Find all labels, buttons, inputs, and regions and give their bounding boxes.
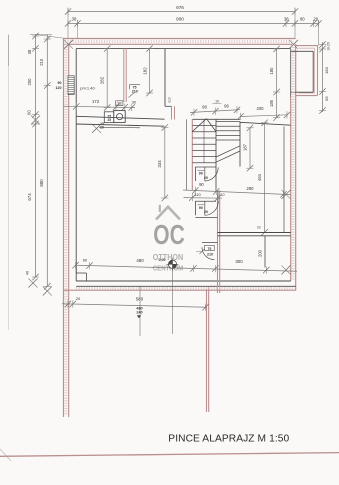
- svg-text:OTTHON: OTTHON: [153, 252, 184, 262]
- svg-text:60: 60: [83, 258, 88, 263]
- svg-text:110: 110: [194, 192, 201, 197]
- svg-text:674: 674: [27, 193, 32, 201]
- svg-text:38: 38: [27, 49, 32, 54]
- svg-text:40: 40: [26, 271, 30, 275]
- svg-text:18-20: 18-20: [326, 42, 330, 51]
- svg-text:PINCE ALAPRAJZ M 1:50: PINCE ALAPRAJZ M 1:50: [168, 433, 289, 444]
- svg-text:464: 464: [257, 173, 262, 181]
- svg-text:38: 38: [72, 17, 77, 22]
- svg-text:38: 38: [284, 17, 289, 22]
- svg-text:900: 900: [176, 16, 184, 21]
- svg-text:282: 282: [100, 76, 105, 84]
- svg-text:210: 210: [39, 58, 44, 66]
- svg-text:90: 90: [199, 172, 203, 176]
- svg-text:180: 180: [324, 66, 329, 73]
- svg-text:210: 210: [207, 252, 213, 256]
- svg-text:172: 172: [92, 99, 100, 104]
- svg-text:20: 20: [100, 126, 104, 130]
- svg-text:200: 200: [27, 78, 32, 86]
- svg-text:38: 38: [117, 101, 122, 106]
- svg-text:30: 30: [132, 100, 137, 105]
- svg-text:20: 20: [204, 210, 208, 214]
- svg-text:10: 10: [257, 225, 261, 229]
- svg-text:10: 10: [215, 100, 219, 104]
- svg-text:10: 10: [221, 193, 225, 197]
- svg-text:90: 90: [199, 206, 203, 210]
- svg-text:187: 187: [243, 143, 248, 151]
- svg-text:200: 200: [257, 106, 265, 111]
- svg-text:85: 85: [324, 96, 329, 101]
- svg-text:210: 210: [132, 90, 138, 94]
- svg-text:98: 98: [202, 105, 207, 110]
- svg-text:96: 96: [224, 104, 229, 109]
- svg-text:20: 20: [76, 296, 81, 301]
- svg-text:120: 120: [56, 86, 62, 90]
- svg-text:25: 25: [107, 118, 111, 122]
- svg-text:75: 75: [207, 247, 211, 251]
- svg-text:334: 334: [157, 160, 162, 168]
- svg-text:180: 180: [269, 67, 274, 75]
- svg-text:185: 185: [269, 99, 274, 107]
- svg-text:x10: x10: [168, 97, 172, 103]
- svg-text:976: 976: [176, 5, 184, 10]
- svg-text:20: 20: [204, 176, 208, 180]
- svg-text:200: 200: [258, 249, 263, 257]
- svg-text:480: 480: [136, 258, 144, 263]
- svg-text:290: 290: [247, 186, 255, 191]
- svg-text:182: 182: [142, 67, 147, 75]
- svg-text:pm:1.40: pm:1.40: [80, 85, 95, 90]
- svg-text:80: 80: [300, 17, 305, 22]
- svg-text:300: 300: [235, 259, 243, 264]
- svg-text:240: 240: [136, 311, 142, 315]
- svg-text:90: 90: [199, 182, 204, 187]
- svg-text:880: 880: [39, 179, 44, 187]
- svg-text:0,00: 0,00: [159, 258, 166, 262]
- svg-text:20: 20: [313, 17, 318, 22]
- svg-text:OC: OC: [153, 219, 185, 250]
- svg-text:60: 60: [27, 110, 32, 115]
- svg-text:90: 90: [58, 81, 62, 85]
